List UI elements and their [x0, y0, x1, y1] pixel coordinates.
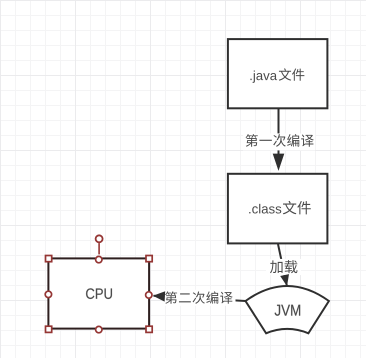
- arrowhead first-compile: [273, 154, 285, 171]
- selection corner handle bottom-right: [146, 326, 152, 332]
- label 第二次编译: [165, 291, 233, 303]
- selection mid handle right: [146, 292, 152, 298]
- label 第一次编译 background: [243, 133, 315, 150]
- label 加载: [270, 260, 297, 273]
- label JVM: [275, 305, 301, 316]
- selection corner handle top-left: [46, 256, 52, 262]
- box CPU: [48, 258, 149, 328]
- selection rotation handle: [96, 235, 103, 254]
- wire second-compile arrow line: [154, 296, 246, 301]
- label 加载 background: [266, 259, 301, 275]
- selection mid handle bottom: [96, 326, 102, 332]
- label CPU: [86, 288, 112, 299]
- box .java文件: [228, 39, 328, 108]
- selection mid handle top: [96, 256, 102, 262]
- wire first-compile arrow line: [278, 109, 280, 155]
- label .java文件: [250, 68, 304, 82]
- label 第二次编译 background: [163, 290, 236, 306]
- arrowhead second-compile: [153, 291, 165, 301]
- selection mid handle left: [45, 291, 51, 297]
- selection corner handle bottom-left: [46, 326, 52, 332]
- label 第一次编译: [246, 134, 314, 147]
- box .class文件: [228, 174, 328, 244]
- arrowhead load: [280, 274, 289, 286]
- shape JVM arc sector: [246, 286, 329, 333]
- wire load arrow line: [278, 244, 287, 286]
- selection corner handle top-right: [146, 256, 152, 262]
- label .class文件: [249, 201, 311, 215]
